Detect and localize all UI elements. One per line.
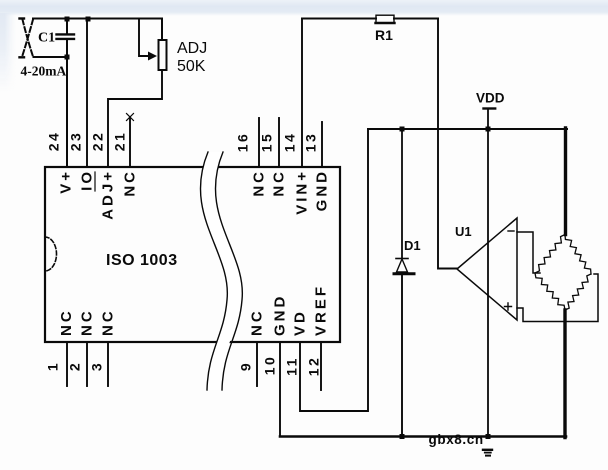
wire: pin 16 stub — [258, 118, 260, 167]
svg-text:ISO 1003: ISO 1003 — [106, 252, 178, 269]
svg-text:21: 21 — [112, 131, 128, 152]
svg-text:15: 15 — [259, 132, 275, 153]
pin 21 no-connect mark — [127, 114, 134, 121]
twisted-pair 4-20mA input symbol — [22, 20, 33, 58]
potentiometer ADJ 50K — [159, 40, 167, 70]
svg-text:24: 24 — [46, 131, 62, 152]
capacitor C1 — [57, 19, 75, 58]
VDD terminal — [484, 107, 496, 109]
svg-text:GND: GND — [272, 294, 289, 336]
wire: bridge bottom to ground rail (thick) — [563, 310, 566, 438]
node: C1 bottom junction — [65, 55, 70, 60]
svg-text:VDD: VDD — [476, 91, 505, 106]
svg-text:R1: R1 — [375, 27, 393, 43]
wire: R1 right riser to op-amp output — [438, 19, 457, 269]
node: rail/D1 junction — [400, 127, 405, 132]
svg-text:GND: GND — [314, 169, 331, 211]
wire: pin 1 stub — [66, 342, 68, 386]
bridge sensor: bottom-left arm — [535, 273, 565, 310]
wire: top input rail — [33, 19, 162, 41]
wire: inverting input to bridge left node — [517, 232, 540, 273]
IC pin-1 notch — [45, 237, 57, 271]
ADJ wiper wire and arrow — [139, 19, 149, 57]
wire: pin 21 stub — [129, 117, 131, 167]
svg-text:NC: NC — [58, 308, 75, 336]
svg-text:50K: 50K — [177, 58, 206, 75]
node: ground rail/D1 junction — [400, 434, 405, 439]
svg-text:V+: V+ — [58, 169, 75, 194]
bridge sensor: bottom-right arm — [565, 274, 591, 310]
svg-text:3: 3 — [89, 361, 105, 371]
svg-text:NC: NC — [251, 169, 268, 197]
wire: pin 9 stub — [256, 342, 258, 386]
svg-text:VREF: VREF — [313, 284, 330, 336]
op-amp plus mark — [505, 303, 512, 310]
wire: pin 12 stub — [320, 342, 322, 390]
node: ground rail/VDD column junction — [486, 434, 491, 439]
op-amp minus mark — [508, 230, 514, 232]
node: rail/pin23 junction — [86, 17, 91, 22]
wire: VDD column down to ground rail — [487, 129, 489, 437]
node: rail/VDD junction — [486, 127, 491, 132]
svg-text:D1: D1 — [404, 238, 421, 253]
svg-text:NC: NC — [79, 308, 96, 336]
ground symbol — [483, 449, 492, 451]
svg-text:10: 10 — [262, 355, 278, 376]
wire: pin 24 riser — [66, 57, 68, 167]
svg-text:NC: NC — [271, 169, 288, 197]
wire: pin 13 stub — [321, 122, 323, 167]
svg-text:12: 12 — [306, 356, 322, 377]
svg-text:13: 13 — [303, 132, 319, 153]
wire: pin 3 stub — [107, 342, 109, 386]
wire: pin 11 to VD net — [300, 129, 368, 411]
op-amp U1 — [457, 218, 517, 320]
svg-text:22: 22 — [90, 131, 106, 152]
svg-text:IO: IO — [79, 169, 96, 191]
IC U ISO 1003 body — [45, 167, 340, 342]
svg-text:16: 16 — [235, 132, 251, 153]
svg-text:VIN+: VIN+ — [294, 169, 311, 215]
svg-text:14: 14 — [282, 132, 298, 153]
decorative top band — [0, 0, 608, 16]
wire: pin 23 riser — [86, 19, 88, 168]
svg-text:4-20mA: 4-20mA — [21, 64, 67, 79]
svg-text:NC: NC — [122, 169, 139, 197]
svg-text:1: 1 — [45, 361, 61, 371]
svg-text:C1: C1 — [38, 31, 55, 46]
wire: VDD distribution rail — [368, 128, 567, 130]
svg-text:ADJ: ADJ — [177, 40, 207, 57]
resistor R1 — [302, 18, 438, 20]
svg-text:NC: NC — [100, 308, 117, 336]
svg-text:11: 11 — [284, 356, 300, 376]
svg-text:23: 23 — [68, 131, 84, 152]
break (wavy) symbol across IC — [200, 152, 242, 390]
wire: non-inverting input to bridge right node — [517, 274, 598, 322]
bridge sensor: top-right arm — [565, 235, 591, 275]
wire: VDD rail to bridge top (thick) — [564, 128, 567, 235]
svg-text:ADJ+: ADJ+ — [100, 169, 117, 220]
svg-text:gbx8.cn: gbx8.cn — [429, 432, 484, 447]
IO underline — [94, 172, 96, 191]
bridge sensor: top-left arm — [535, 235, 565, 274]
svg-text:VD: VD — [292, 309, 309, 336]
wire: bottom input conductor — [34, 56, 68, 58]
wire: pin 2 stub — [86, 342, 88, 386]
node: rail/C1 junction — [65, 17, 70, 22]
svg-text:U1: U1 — [455, 224, 472, 239]
svg-text:NC: NC — [249, 308, 266, 336]
svg-text:9: 9 — [238, 361, 254, 371]
diode D1 — [401, 129, 403, 258]
wire: ADJ bottom to pin 22 — [108, 70, 162, 167]
wire: pin 10 to ground rail — [279, 342, 281, 437]
wire: ground rail — [280, 435, 566, 438]
wire: R1 left riser to pin 14 — [301, 19, 303, 168]
wire: pin 15 stub — [278, 118, 280, 167]
svg-text:2: 2 — [67, 361, 83, 371]
